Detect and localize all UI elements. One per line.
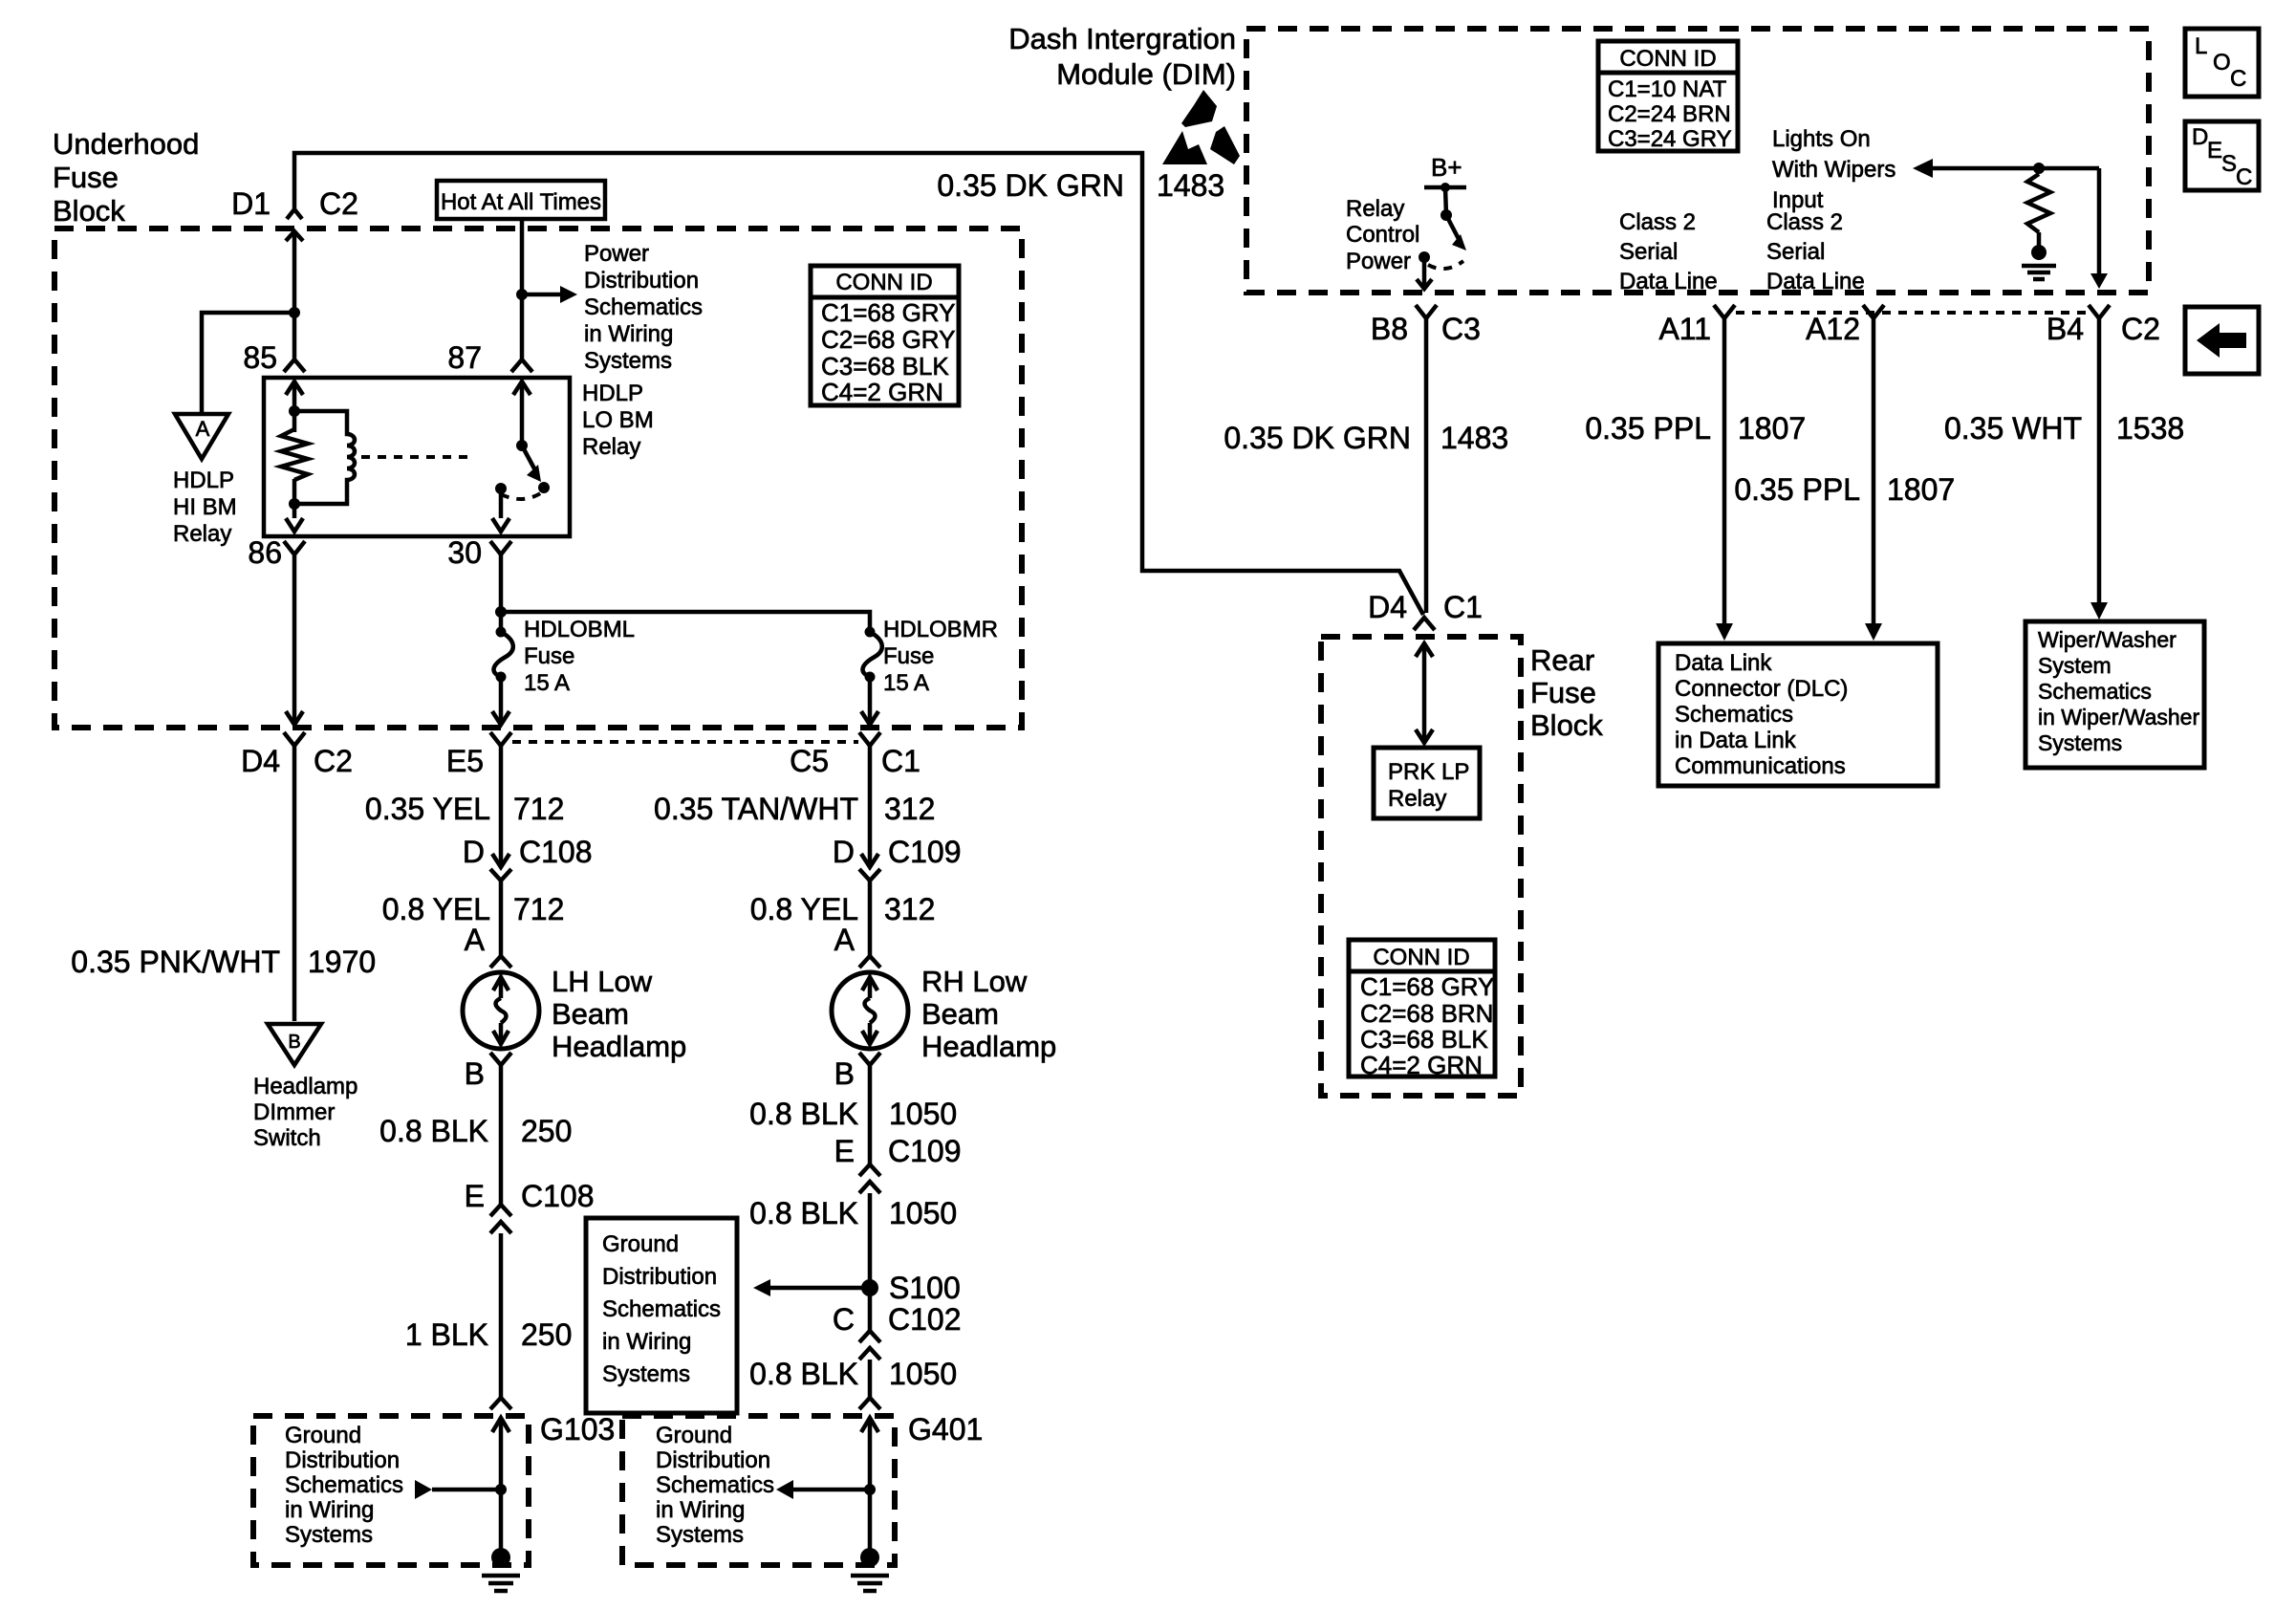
svg-text:in Wiring: in Wiring — [285, 1497, 374, 1523]
svg-text:E5: E5 — [446, 744, 484, 778]
svg-text:0.35 TAN/WHT: 0.35 TAN/WHT — [654, 792, 858, 826]
svg-text:Schematics: Schematics — [584, 294, 703, 320]
LH ground wire upper — [499, 1065, 504, 1205]
svg-text:Relay: Relay — [173, 521, 231, 547]
relay resistor (coil suppression) — [281, 429, 308, 480]
ground symbol G401 — [851, 1548, 889, 1591]
svg-text:Serial: Serial — [1619, 239, 1678, 265]
relay control switch pivot — [1440, 209, 1452, 221]
svg-text:87: 87 — [447, 340, 482, 375]
svg-text:Distribution: Distribution — [584, 268, 699, 294]
svg-text:C2: C2 — [2121, 312, 2160, 346]
relay alternate position dashed arc — [501, 492, 542, 499]
relay control switch arm arrow — [1446, 215, 1466, 250]
svg-text:Power: Power — [1346, 249, 1411, 274]
wire label 0.35 PNK/WHT 1970 — [71, 945, 376, 979]
svg-text:Connector (DLC): Connector (DLC) — [1675, 676, 1848, 702]
svg-text:C2: C2 — [314, 744, 353, 778]
svg-text:1050: 1050 — [889, 1196, 957, 1230]
pin 30 label and connector — [447, 535, 511, 570]
svg-text:Block: Block — [1530, 708, 1603, 742]
wire from D1/C2 up and across to DIM area — [294, 153, 1423, 615]
connector D C108 — [463, 835, 593, 881]
svg-text:E: E — [834, 1134, 855, 1168]
wire below left fuse — [492, 677, 509, 725]
svg-text:B+: B+ — [1431, 153, 1462, 182]
connector D C109 — [833, 835, 962, 881]
svg-text:Distribution: Distribution — [285, 1447, 400, 1473]
wire label 0.8 YEL 312 — [750, 892, 936, 926]
svg-text:Serial: Serial — [1766, 239, 1825, 265]
relay coil feed wire pin85 inside — [286, 381, 303, 432]
svg-text:D1: D1 — [231, 186, 271, 221]
svg-text:A: A — [834, 923, 856, 957]
svg-text:Rear: Rear — [1530, 643, 1594, 677]
wire from Hot At All Times down to relay pin 87 — [520, 219, 525, 359]
svg-text:in Wiring: in Wiring — [584, 321, 673, 347]
relay actuation dashed link — [361, 455, 475, 459]
relay output wire to pin 30 — [492, 489, 509, 532]
svg-text:15 A: 15 A — [883, 670, 929, 696]
svg-text:G103: G103 — [540, 1412, 615, 1447]
S100 pointer arrow to ground note — [753, 1279, 870, 1296]
svg-text:0.8 YEL: 0.8 YEL — [382, 892, 490, 926]
svg-text:Power: Power — [584, 241, 649, 267]
Rear Fuse Block label — [1530, 643, 1603, 742]
svg-text:1 BLK: 1 BLK — [405, 1317, 488, 1352]
svg-text:B8: B8 — [1371, 312, 1408, 346]
wire label 0.35 PPL 1807 (A12) — [1734, 472, 1955, 507]
wire pin86 down to fuse block edge — [286, 555, 303, 725]
svg-text:Beam: Beam — [552, 997, 629, 1031]
svg-text:0.35 YEL: 0.35 YEL — [365, 792, 490, 826]
connector into G401 — [859, 1398, 880, 1409]
svg-text:Dash Intergration: Dash Intergration — [1008, 22, 1236, 55]
wire A12 down to DLC — [1865, 318, 1882, 641]
connector D1 C2 labels — [231, 186, 358, 221]
RH Low Beam Headlamp bulb — [832, 972, 908, 1049]
wire B+ contact down to B8 — [1417, 257, 1432, 289]
svg-text:Communications: Communications — [1675, 753, 1846, 779]
svg-text:C3=68 BLK: C3=68 BLK — [1360, 1025, 1488, 1054]
connector D4 C1 (rear fuse block) — [1368, 590, 1483, 630]
svg-text:Distribution: Distribution — [602, 1264, 717, 1290]
svg-text:Fuse: Fuse — [883, 643, 934, 669]
wire label 0.8 YEL 712 — [382, 892, 565, 926]
wire pin30 down to fuse feed — [499, 555, 504, 627]
svg-text:CONN ID: CONN ID — [1373, 945, 1469, 970]
svg-text:A: A — [465, 923, 486, 957]
svg-text:712: 712 — [513, 892, 564, 926]
svg-text:0.35 WHT: 0.35 WHT — [1944, 411, 2082, 446]
svg-text:Systems: Systems — [2038, 730, 2122, 755]
wire lights-on input down to B4 — [2090, 168, 2108, 289]
wire headlamp dimmer feed — [292, 746, 297, 1021]
Rear Fuse Block dashed enclosure — [1321, 637, 1521, 1096]
svg-text:B4: B4 — [2047, 312, 2084, 346]
svg-text:Schematics: Schematics — [602, 1296, 721, 1322]
svg-text:L: L — [2195, 33, 2207, 59]
CONN ID table rear fuse block — [1349, 940, 1495, 1079]
svg-text:B: B — [834, 1056, 855, 1091]
Ground Distribution note in G103 — [285, 1423, 403, 1548]
connector E5 — [446, 732, 511, 778]
Class 2 Serial Data Line label (A12) — [1766, 209, 1865, 294]
svg-text:1807: 1807 — [1738, 411, 1806, 446]
RH feed wire from C1 — [868, 746, 873, 865]
svg-text:C108: C108 — [521, 1179, 595, 1213]
wire D1 to relay pin 85 with up arrow — [286, 231, 303, 359]
pin B LH headlamp — [465, 1053, 511, 1091]
wire label 0.35 DK GRN 1483 (B8) — [1224, 421, 1508, 455]
wire B8 down to D4/C1 — [1424, 318, 1429, 613]
svg-text:Headlamp: Headlamp — [253, 1074, 357, 1099]
svg-text:250: 250 — [521, 1317, 572, 1352]
svg-text:Ground: Ground — [285, 1423, 361, 1448]
Power Distribution Schematics note — [584, 241, 703, 374]
HDLP LO BM Relay label — [582, 381, 654, 460]
wire A11 down to DLC — [1716, 318, 1733, 641]
wire label 0.35 WHT 1538 — [1944, 411, 2184, 446]
svg-text:C5: C5 — [790, 744, 829, 778]
pin B RH headlamp — [834, 1053, 880, 1091]
connector E C109 — [834, 1134, 962, 1193]
relay switch common feed from pin 87 — [513, 381, 531, 446]
ground symbol G103 — [482, 1548, 520, 1591]
svg-text:D4: D4 — [1368, 590, 1407, 624]
PRK LP Relay box — [1374, 748, 1480, 818]
svg-text:Relay: Relay — [1346, 196, 1404, 222]
underhood fuse block label — [53, 127, 199, 228]
svg-text:250: 250 — [521, 1114, 572, 1148]
HDLOBMR fuse label — [883, 617, 998, 696]
wire branch to triangle A — [202, 313, 294, 413]
svg-text:0.8 BLK: 0.8 BLK — [379, 1114, 488, 1148]
relay pin86 exit arrow — [286, 518, 303, 532]
relay coil top node — [289, 405, 300, 417]
svg-text:C: C — [833, 1302, 855, 1337]
svg-text:Systems: Systems — [584, 348, 672, 374]
wire label 0.8 BLK 1050 lower — [749, 1357, 957, 1391]
fuse feed branch wire to right fuse — [501, 612, 870, 627]
svg-text:1538: 1538 — [2116, 411, 2184, 446]
svg-text:E: E — [465, 1179, 485, 1213]
svg-text:C: C — [2236, 164, 2252, 190]
svg-text:1050: 1050 — [889, 1097, 957, 1131]
svg-text:Underhood: Underhood — [53, 127, 199, 161]
svg-text:C4=2 GRN: C4=2 GRN — [821, 378, 943, 406]
wire label 0.8 BLK 1050 middle — [749, 1196, 957, 1230]
svg-text:HDLP: HDLP — [173, 468, 234, 493]
Relay Control Power label — [1346, 196, 1419, 274]
junction node on pin87 feed — [516, 289, 528, 300]
svg-text:HDLP: HDLP — [582, 381, 643, 406]
svg-text:1970: 1970 — [308, 945, 376, 979]
svg-text:HI BM: HI BM — [173, 494, 237, 520]
relay control dashed travel arc — [1428, 261, 1463, 269]
wire label 0.35 TAN/WHT 312 — [654, 792, 935, 826]
HDLOBML fuse label — [524, 617, 635, 696]
HDLP LO BM relay box — [264, 378, 570, 536]
G103 ground distribution dashed box — [253, 1416, 529, 1565]
wire label 0.35 DK GRN 1483 (top) — [937, 168, 1224, 203]
pull-up resistor at wiper input — [2027, 174, 2050, 232]
svg-text:30: 30 — [447, 535, 482, 570]
LH Low Beam Headlamp bulb — [463, 972, 539, 1049]
svg-text:Control: Control — [1346, 222, 1419, 248]
G401 note pointer arrow — [776, 1480, 876, 1499]
svg-text:S100: S100 — [889, 1271, 961, 1305]
wire B4 down to wiper note — [2090, 318, 2108, 620]
ground symbol DIM resistor — [2022, 245, 2056, 279]
LH Low Beam Headlamp label — [552, 965, 686, 1063]
relay contact dots — [495, 482, 550, 494]
pointer arrow to Power Distribution note — [522, 286, 577, 303]
svg-text:C1=68 GRY: C1=68 GRY — [1360, 972, 1494, 1001]
relay coil bottom node — [289, 498, 300, 510]
svg-text:1483: 1483 — [1440, 421, 1508, 455]
svg-text:C2=68 BRN: C2=68 BRN — [1360, 999, 1493, 1028]
svg-text:C: C — [2230, 66, 2246, 92]
svg-text:C2=24 BRN: C2=24 BRN — [1608, 101, 1731, 127]
svg-text:1050: 1050 — [889, 1357, 957, 1391]
svg-text:Relay: Relay — [1388, 786, 1446, 812]
svg-text:D: D — [833, 835, 855, 869]
svg-text:312: 312 — [884, 892, 935, 926]
svg-text:LO BM: LO BM — [582, 407, 654, 433]
svg-text:C1=10 NAT: C1=10 NAT — [1608, 76, 1727, 102]
connector link dashed line E5 to C5 — [512, 740, 858, 744]
svg-text:Wiper/Washer: Wiper/Washer — [2038, 627, 2177, 652]
svg-text:C2=68 GRY: C2=68 GRY — [821, 325, 955, 354]
svg-text:Systems: Systems — [602, 1361, 690, 1387]
wire label 1 BLK 250 — [405, 1317, 573, 1352]
Headlamp Dimmer Switch label — [253, 1074, 357, 1151]
LOC reference box — [2185, 29, 2259, 97]
svg-text:Class 2: Class 2 — [1619, 209, 1696, 235]
svg-text:E: E — [2207, 138, 2222, 163]
wire C108 to LH headlamp — [499, 881, 504, 956]
connector D4 C2 (bottom of fuse block) — [241, 732, 353, 778]
Ground Distribution note box (solid) — [586, 1218, 737, 1413]
connector B8 C3 — [1371, 305, 1481, 346]
connector C C102 — [833, 1302, 962, 1360]
pin 87 label and connector chevron — [447, 340, 532, 375]
relay armature pivot — [516, 440, 528, 451]
connector D1/C2 symbol — [287, 209, 302, 219]
svg-text:Hot At All Times: Hot At All Times — [441, 189, 601, 215]
RH ground wire to S100 — [868, 1193, 873, 1331]
svg-text:C109: C109 — [888, 835, 962, 869]
relay armature arrow — [522, 446, 541, 482]
fuse HDLOBMR 15A — [863, 627, 882, 683]
svg-text:Switch: Switch — [253, 1125, 321, 1151]
svg-text:Class 2: Class 2 — [1766, 209, 1843, 235]
svg-text:Schematics: Schematics — [2038, 679, 2152, 704]
svg-text:Ground: Ground — [602, 1231, 679, 1257]
svg-text:DImmer: DImmer — [253, 1099, 335, 1125]
ground wire into G103 — [492, 1418, 509, 1557]
G401 ground distribution dashed box — [622, 1416, 895, 1565]
LH feed wire from E5 — [499, 746, 504, 865]
svg-text:Module (DIM): Module (DIM) — [1056, 57, 1236, 91]
wire below right fuse — [861, 677, 878, 725]
B+ supply symbol — [1424, 153, 1466, 215]
Wiper/Washer note box — [2025, 621, 2204, 768]
DESC reference box — [2185, 121, 2259, 190]
svg-text:C108: C108 — [519, 835, 593, 869]
pin A LH headlamp — [465, 923, 511, 968]
svg-text:0.8 BLK: 0.8 BLK — [749, 1196, 858, 1230]
svg-text:LH Low: LH Low — [552, 965, 653, 998]
svg-text:1483: 1483 — [1157, 168, 1224, 203]
svg-text:PRK LP: PRK LP — [1388, 759, 1469, 785]
svg-text:C109: C109 — [888, 1134, 962, 1168]
ESD sensitive symbol — [1162, 90, 1240, 164]
svg-text:D: D — [2192, 124, 2208, 150]
LH ground wire lower — [499, 1233, 504, 1398]
svg-text:C1=68 GRY: C1=68 GRY — [821, 298, 955, 327]
svg-text:Schematics: Schematics — [656, 1472, 774, 1498]
svg-text:B: B — [465, 1056, 485, 1091]
svg-text:Headlamp: Headlamp — [552, 1030, 686, 1063]
svg-text:in Data Link: in Data Link — [1675, 728, 1797, 753]
splice S100 — [861, 1271, 961, 1305]
svg-text:C4=2 GRN: C4=2 GRN — [1360, 1051, 1483, 1079]
svg-text:A11: A11 — [1658, 312, 1711, 346]
RH ground wire lower — [868, 1360, 873, 1398]
svg-text:C1: C1 — [881, 744, 921, 778]
DIM dashed enclosure — [1246, 29, 2149, 293]
wire C109 to RH headlamp — [868, 881, 873, 956]
svg-text:A12: A12 — [1806, 312, 1860, 346]
Dash Integration Module label — [1008, 22, 1236, 91]
pin 86 label and connector — [248, 535, 305, 570]
relay coil winding — [294, 411, 355, 504]
wire label 0.8 BLK 1050 upper — [749, 1097, 957, 1131]
svg-text:G401: G401 — [908, 1412, 983, 1447]
resistor lead to ground — [2037, 232, 2042, 247]
svg-text:15 A: 15 A — [524, 670, 570, 696]
svg-text:Schematics: Schematics — [285, 1472, 403, 1498]
Hot At All Times box — [437, 181, 605, 219]
ground wire into G401 — [861, 1418, 878, 1557]
svg-text:HDLOBMR: HDLOBMR — [883, 617, 998, 642]
svg-text:0.35 PPL: 0.35 PPL — [1585, 411, 1711, 446]
svg-text:Fuse: Fuse — [53, 161, 119, 194]
Lights On With Wipers Input label — [1772, 126, 1895, 213]
svg-text:Fuse: Fuse — [524, 643, 574, 669]
svg-text:312: 312 — [884, 792, 935, 826]
svg-text:712: 712 — [513, 792, 564, 826]
svg-text:in Wiring: in Wiring — [602, 1329, 691, 1355]
connector B4 C2 — [2047, 305, 2160, 346]
fuse HDLOBML 15A — [494, 627, 513, 683]
double arrow to PRK LP relay — [1416, 643, 1433, 743]
svg-text:86: 86 — [248, 535, 282, 570]
off-page triangle B (Headlamp Dimmer Switch) — [268, 1024, 321, 1065]
svg-text:Beam: Beam — [921, 997, 999, 1031]
svg-text:Systems: Systems — [656, 1522, 744, 1548]
relay control switch contact — [1419, 251, 1430, 263]
svg-text:D4: D4 — [241, 744, 280, 778]
svg-text:0.35 DK GRN: 0.35 DK GRN — [1224, 421, 1411, 455]
pin 85 label and connector chevron — [243, 340, 305, 375]
svg-text:0.35 DK GRN: 0.35 DK GRN — [937, 168, 1124, 203]
svg-text:Lights On: Lights On — [1772, 126, 1871, 152]
svg-text:C102: C102 — [888, 1302, 962, 1337]
svg-text:RH Low: RH Low — [921, 965, 1028, 998]
svg-text:0.35 PPL: 0.35 PPL — [1734, 472, 1860, 507]
fuse feed junction — [495, 606, 507, 618]
wire label 0.8 BLK 250 — [379, 1114, 572, 1148]
svg-text:CONN ID: CONN ID — [835, 270, 932, 295]
Ground Distribution note in G401 — [656, 1423, 774, 1548]
off-page triangle A (HDLP HI BM Relay) — [175, 414, 228, 459]
HDLP HI BM Relay label — [173, 468, 237, 547]
svg-text:in Wiper/Washer: in Wiper/Washer — [2038, 705, 2199, 729]
svg-text:C3=24 GRY: C3=24 GRY — [1608, 126, 1732, 152]
connector E C108 — [465, 1179, 595, 1233]
svg-text:Data Link: Data Link — [1675, 650, 1772, 676]
relay resistor bottom wire — [292, 479, 297, 518]
svg-text:0.8 YEL: 0.8 YEL — [750, 892, 858, 926]
back navigation arrow box — [2185, 307, 2259, 374]
CONN ID table DIM — [1598, 41, 1738, 152]
RH ground wire upper — [868, 1065, 873, 1164]
wire label 0.35 YEL 712 — [365, 792, 564, 826]
svg-text:Ground: Ground — [656, 1423, 732, 1448]
svg-text:C3=68 BLK: C3=68 BLK — [821, 352, 949, 381]
svg-text:HDLOBML: HDLOBML — [524, 617, 635, 642]
G103 note pointer arrow — [415, 1480, 507, 1499]
pin A RH headlamp — [834, 923, 880, 968]
svg-text:Systems: Systems — [285, 1522, 373, 1548]
RH Low Beam Headlamp label — [921, 965, 1056, 1063]
svg-text:85: 85 — [243, 340, 277, 375]
svg-text:0.8 BLK: 0.8 BLK — [749, 1097, 858, 1131]
svg-text:Fuse: Fuse — [1530, 676, 1596, 709]
svg-text:Schematics: Schematics — [1675, 702, 1793, 728]
svg-text:B: B — [288, 1032, 300, 1053]
svg-text:C1: C1 — [1443, 590, 1483, 624]
Class 2 Serial Data Line label (A11) — [1619, 209, 1718, 294]
junction node to HDLP HI BM relay branch — [289, 307, 300, 318]
CONN ID table underhood — [811, 266, 959, 406]
svg-text:Block: Block — [53, 194, 125, 228]
svg-text:0.35 PNK/WHT: 0.35 PNK/WHT — [71, 945, 280, 979]
svg-text:1807: 1807 — [1887, 472, 1955, 507]
svg-text:Data Line: Data Line — [1766, 269, 1865, 294]
svg-text:C3: C3 — [1441, 312, 1481, 346]
svg-text:Distribution: Distribution — [656, 1447, 770, 1473]
connector C5 C1 — [790, 732, 921, 778]
svg-text:D: D — [463, 835, 485, 869]
svg-text:in Wiring: in Wiring — [656, 1497, 745, 1523]
connector link dashed line A11 to B4 — [1736, 311, 2089, 315]
svg-text:0.8 BLK: 0.8 BLK — [749, 1357, 858, 1391]
svg-text:System: System — [2038, 653, 2112, 678]
connector into G103 — [490, 1398, 511, 1409]
svg-text:O: O — [2213, 50, 2231, 76]
connector A12 — [1806, 305, 1884, 346]
connector A11 — [1658, 305, 1735, 346]
Data Link Connector note box — [1658, 643, 1938, 786]
svg-text:A: A — [196, 417, 210, 441]
svg-text:S: S — [2221, 151, 2237, 177]
lights-on pointer arrow and wire — [1913, 159, 2099, 178]
svg-text:C2: C2 — [319, 186, 358, 221]
